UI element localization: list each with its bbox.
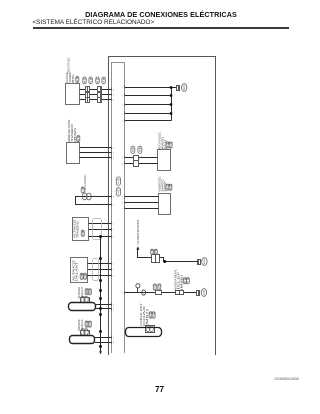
svg-text:3: 3 [113, 276, 115, 278]
svg-text:9: 9 [113, 205, 115, 207]
svg-text:TRASERO: TRASERO [76, 222, 80, 239]
svg-text:2: 2 [113, 90, 115, 92]
svg-text:1: 1 [113, 264, 115, 266]
svg-text:2: 2 [113, 230, 115, 232]
svg-text:6: 6 [113, 309, 115, 311]
svg-text:6: 6 [113, 158, 115, 160]
svg-text:6: 6 [122, 203, 124, 205]
svg-text:G: G [84, 195, 86, 199]
svg-text:4: 4 [122, 164, 124, 166]
svg-text:B: B [82, 187, 84, 191]
svg-text:8: 8 [113, 100, 115, 102]
svg-text:1: 1 [122, 96, 124, 98]
svg-text:(M66): (M66) [179, 275, 183, 291]
svg-text:5: 5 [113, 153, 115, 155]
svg-text:5: 5 [113, 305, 115, 307]
svg-text:1: 1 [122, 114, 124, 116]
svg-text:3: 3 [113, 237, 115, 239]
svg-text:7: 7 [113, 338, 115, 340]
svg-text:9: 9 [122, 293, 124, 295]
svg-text:DELANT: DELANT [74, 261, 78, 281]
svg-text:5: 5 [113, 95, 115, 97]
svg-text:8: 8 [113, 343, 115, 345]
svg-text:3: 3 [203, 292, 205, 296]
svg-text:7: 7 [122, 209, 124, 211]
svg-text:CONDUCTOR DESC: CONDUCTOR DESC [67, 57, 71, 74]
svg-text:A LA UNIDAD DE CONTROL: A LA UNIDAD DE CONTROL [136, 219, 140, 244]
svg-text:2: 2 [113, 270, 115, 272]
svg-text:4: 4 [113, 148, 115, 150]
svg-text:1: 1 [122, 105, 124, 107]
svg-text:(M67): (M67) [145, 309, 149, 326]
svg-text:1: 1 [122, 121, 124, 123]
svg-text:8: 8 [113, 197, 115, 199]
svg-text:1: 1 [113, 224, 115, 226]
svg-text:1: 1 [122, 88, 124, 90]
svg-text:(B30): (B30) [71, 74, 75, 83]
svg-text:2: 2 [204, 261, 206, 265]
svg-text:3: 3 [122, 158, 124, 160]
svg-text:5: 5 [122, 197, 124, 199]
